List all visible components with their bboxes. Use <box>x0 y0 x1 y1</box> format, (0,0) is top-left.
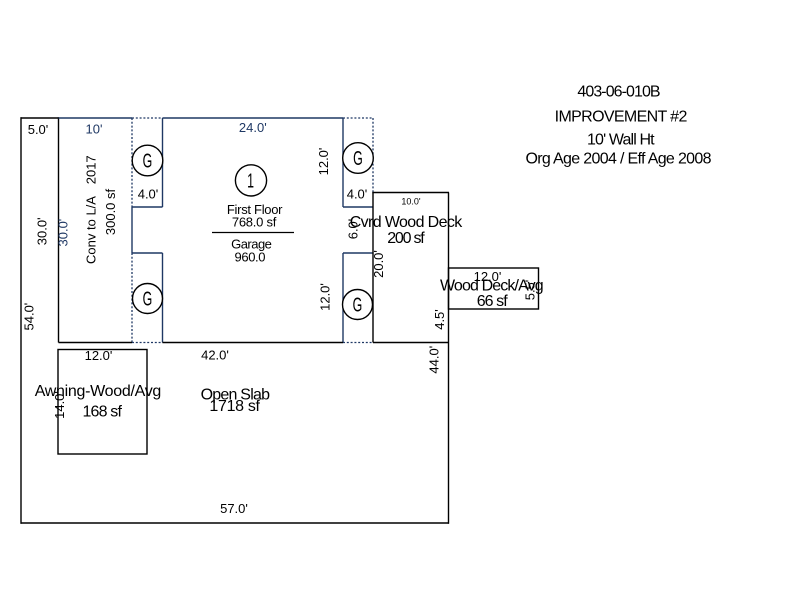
wall: right notch bottom <box>343 252 373 254</box>
wall: left notch top 4.0' <box>132 206 163 208</box>
svg-text:4.0': 4.0' <box>347 187 368 202</box>
svg-text:200 sf: 200 sf <box>387 230 425 247</box>
svg-text:24.0': 24.0' <box>239 120 267 135</box>
garage door symbol G bottom-right <box>343 290 373 320</box>
svg-text:1: 1 <box>247 169 254 192</box>
wall: garage left boundary (dashed, upper) <box>131 118 133 207</box>
svg-text:G: G <box>353 294 363 317</box>
svg-text:44.0': 44.0' <box>427 346 442 374</box>
svg-text:10' Wall Ht: 10' Wall Ht <box>587 132 655 149</box>
svg-text:12.0': 12.0' <box>316 148 331 176</box>
svg-text:Awning-Wood/Avg: Awning-Wood/Avg <box>35 383 162 400</box>
wall: open slab top edge (5 ft strip) <box>21 117 59 119</box>
svg-text:2017: 2017 <box>84 155 99 184</box>
svg-text:1718 sf: 1718 sf <box>209 398 260 415</box>
svg-text:Wood Deck/Avg: Wood Deck/Avg <box>440 278 544 295</box>
wall: divider between 5ft strip and Conv to L/A <box>58 117 60 342</box>
wall: garage door opening bottom-left (dashed) <box>132 342 163 344</box>
wall: bottom edge conv segment <box>59 342 133 344</box>
svg-text:10.0': 10.0' <box>401 197 421 207</box>
wall: first floor bottom edge <box>163 342 344 344</box>
svg-text:G: G <box>143 150 153 173</box>
garage door symbol G top-right <box>343 143 374 174</box>
svg-text:30.0': 30.0' <box>56 219 71 247</box>
svg-text:5.0': 5.0' <box>28 122 49 137</box>
wall: cvrd wood deck top edge <box>372 192 449 194</box>
wall: open slab bottom edge 57.0' <box>21 522 450 524</box>
wall: garage door opening top-right (dashed) <box>343 117 373 119</box>
svg-text:57.0': 57.0' <box>220 501 248 516</box>
wall: left notch bottom <box>132 252 163 254</box>
wall: first floor top edge 24.0' (navy) <box>163 117 344 119</box>
garage door symbol G bottom-left <box>133 284 163 314</box>
wall: first floor right wall upper 12.0' <box>342 118 344 207</box>
wall: garage left boundary (dashed, lower) <box>131 253 133 343</box>
svg-text:Cvrd Wood Deck: Cvrd Wood Deck <box>350 214 464 231</box>
svg-text:168 sf: 168 sf <box>82 404 122 421</box>
wall: open slab / deck right edge <box>448 193 450 524</box>
wood deck/avg box <box>449 268 539 309</box>
svg-text:66 sf: 66 sf <box>477 293 509 310</box>
wall: left notch vertical 6.0' <box>131 207 133 253</box>
wall: conv to L/A top edge (navy) <box>59 117 133 119</box>
svg-text:12.0': 12.0' <box>318 283 333 311</box>
wall: garage door opening bottom-right (dashed) <box>343 342 373 344</box>
svg-text:42.0': 42.0' <box>201 348 229 363</box>
svg-text:G: G <box>353 147 363 170</box>
svg-text:30.0': 30.0' <box>35 217 50 245</box>
wall: garage door opening top-left (dashed) <box>132 117 163 119</box>
wall: deck bottom edge <box>373 342 449 344</box>
wall: open slab outer left edge <box>20 117 22 523</box>
svg-text:960.0: 960.0 <box>235 250 266 265</box>
svg-text:Conv to L/A: Conv to L/A <box>84 196 99 264</box>
svg-text:IMPROVEMENT #2: IMPROVEMENT #2 <box>555 109 688 126</box>
svg-text:20.0': 20.0' <box>371 250 386 278</box>
separator line under 768.0 sf <box>212 232 294 234</box>
wall: first floor left wall upper 12.0' <box>162 118 164 207</box>
wall: first floor left wall lower 12.0' <box>162 253 164 343</box>
area number symbol 1 <box>235 165 266 196</box>
svg-text:4.0': 4.0' <box>138 187 159 202</box>
wall: first floor right wall lower 12.0' <box>342 253 344 343</box>
svg-text:10': 10' <box>86 122 103 137</box>
awning-wood/avg box <box>58 350 147 455</box>
garage door symbol G top-left <box>132 145 163 176</box>
svg-text:12.0': 12.0' <box>85 348 113 363</box>
svg-text:403-06-010B: 403-06-010B <box>577 84 660 101</box>
svg-text:Org Age 2004 / Eff Age 2008: Org Age 2004 / Eff Age 2008 <box>525 151 711 168</box>
svg-text:G: G <box>143 288 153 311</box>
svg-text:768.0 sf: 768.0 sf <box>232 215 277 230</box>
svg-text:54.0': 54.0' <box>22 303 37 331</box>
wall: right notch top 4.0' <box>343 206 373 208</box>
svg-text:4.5': 4.5' <box>432 309 447 330</box>
svg-text:300.0 sf: 300.0 sf <box>103 188 118 235</box>
wall: cvrd wood deck left edge <box>372 193 374 343</box>
wall: garage right boundary (dashed, above deck) <box>372 118 374 193</box>
